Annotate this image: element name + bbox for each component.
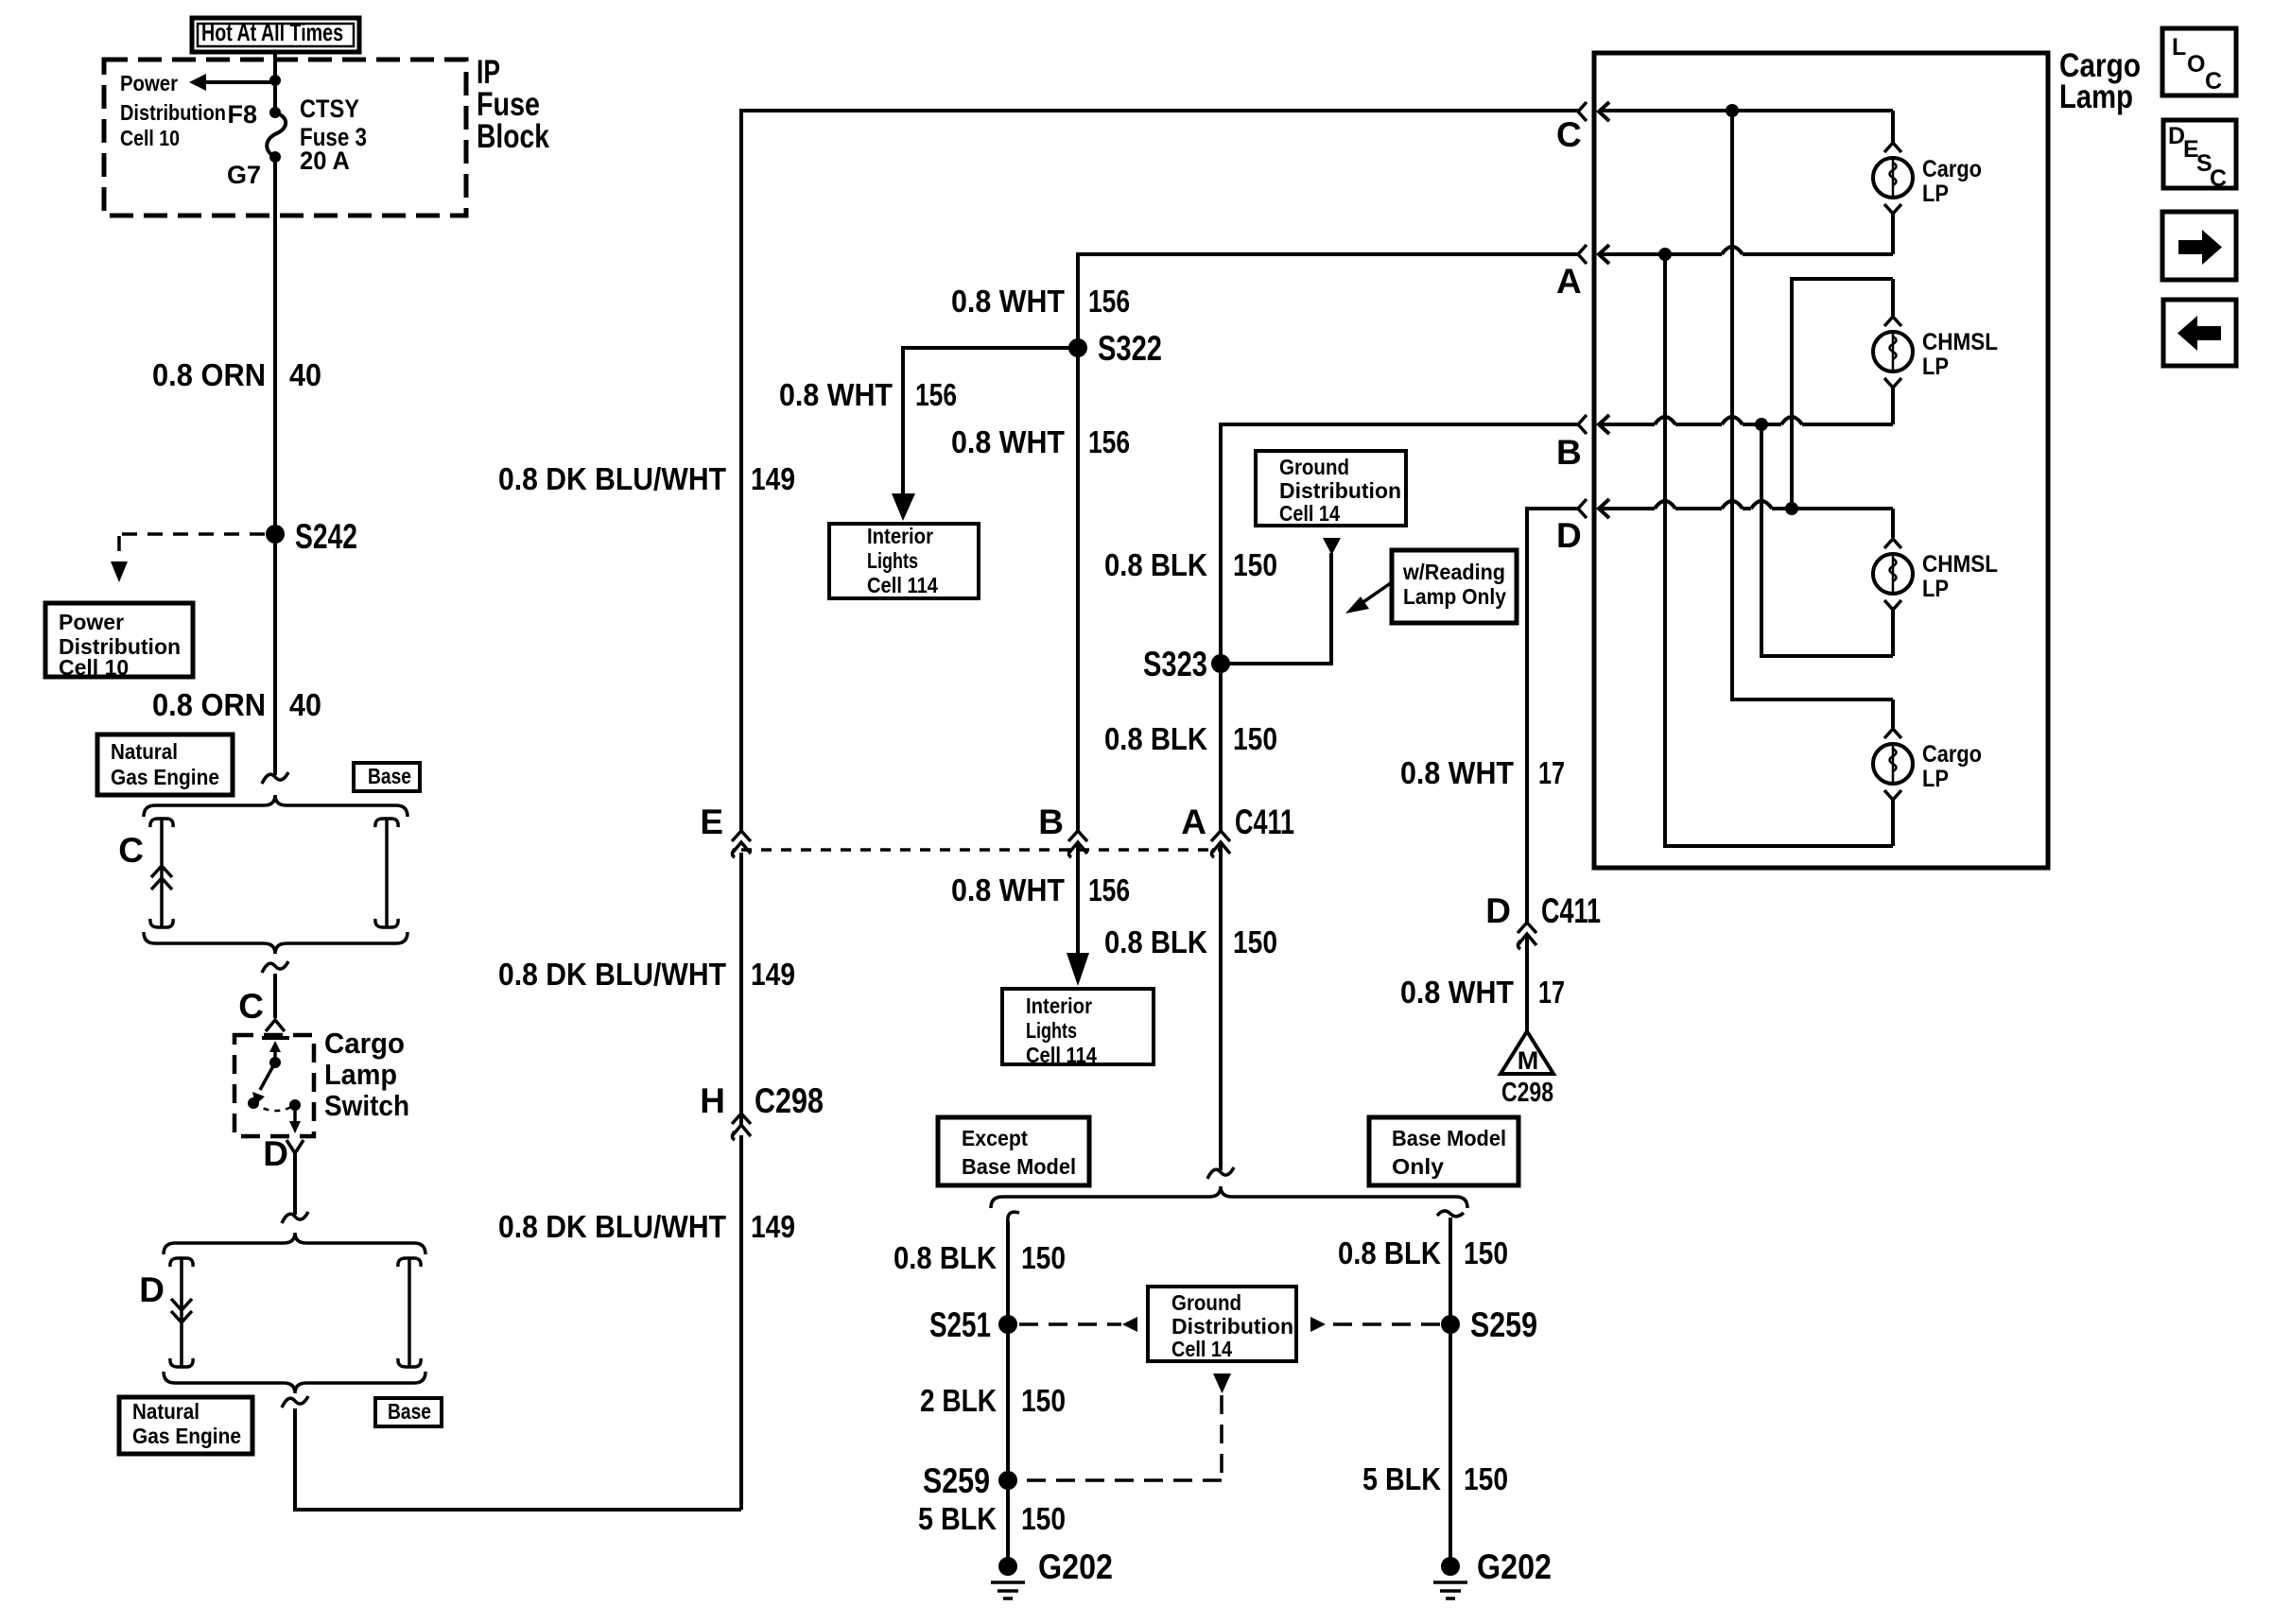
svg-text:149: 149 [751, 957, 795, 992]
svg-text:Natural: Natural [111, 739, 178, 764]
wire riser middle segment [739, 853, 743, 1125]
svg-text:150: 150 [1233, 547, 1277, 582]
svg-text:Interior: Interior [1026, 993, 1092, 1018]
IP Fuse Block label [477, 54, 549, 155]
svg-text:A: A [1556, 262, 1582, 301]
arrow from w/Reading Lamp Only [1345, 582, 1392, 613]
connector C298 M [1501, 1031, 1553, 1108]
svg-text:LP: LP [1922, 181, 1949, 207]
svg-text:LP: LP [1922, 576, 1949, 602]
svg-text:Distribution: Distribution [120, 100, 226, 125]
svg-text:H: H [700, 1081, 725, 1120]
wire interconnect D to lamp2 top [1792, 279, 1893, 509]
svg-text:C411: C411 [1235, 803, 1294, 841]
svg-text:Cargo: Cargo [324, 1027, 405, 1060]
svg-text:Base: Base [368, 764, 411, 788]
node on C feed [1726, 104, 1739, 117]
svg-text:156: 156 [915, 377, 957, 412]
wire elbow to riser [295, 1408, 741, 1510]
wire riser top segment [741, 111, 1578, 831]
svg-text:O: O [2187, 51, 2205, 78]
right arrow nav box [2162, 212, 2236, 280]
svg-text:Cargo: Cargo [1922, 156, 1982, 182]
svg-text:Gas Engine: Gas Engine [111, 765, 219, 789]
svg-text:C298: C298 [1501, 1078, 1553, 1108]
svg-text:S259: S259 [1470, 1305, 1537, 1344]
wire break [262, 961, 288, 973]
terminal A [1556, 245, 1893, 301]
svg-text:D: D [139, 1270, 165, 1309]
terminal C [1556, 102, 1893, 154]
dashed branch to Power Distribution Cell 10 [111, 534, 265, 582]
connector C411 pin E [700, 803, 751, 857]
wire label 0.8 DK BLU/WHT 149 (lower) [498, 1209, 795, 1244]
svg-text:Cell 14: Cell 14 [1279, 501, 1340, 526]
svg-text:0.8 ORN: 0.8 ORN [152, 357, 266, 392]
svg-text:150: 150 [1233, 924, 1277, 959]
lamp Cargo LP (top) [1873, 111, 1982, 254]
splice S259 (right) [1441, 1305, 1537, 1344]
left arrow nav box [2163, 300, 2236, 366]
svg-text:Cell 114: Cell 114 [867, 573, 938, 597]
brace bottom [164, 1372, 425, 1393]
connector D (switch output) [263, 1134, 304, 1173]
svg-text:L: L [2172, 34, 2186, 60]
svg-text:0.8 BLK: 0.8 BLK [1104, 924, 1207, 959]
wire label 5 BLK 150 [918, 1501, 1066, 1536]
fuse CTSY Fuse 3 20 A [267, 95, 367, 175]
Base box [354, 763, 420, 791]
svg-text:150: 150 [1021, 1501, 1066, 1536]
Power Distribution Cell 10 text (in fuse block) [120, 71, 226, 150]
svg-text:Interior: Interior [867, 524, 933, 548]
Interior Lights Cell 114 box (upper) [829, 524, 979, 598]
wire cargo lamp B-terminal to BLK riser [1221, 424, 1578, 831]
svg-text:Ground: Ground [1171, 1290, 1241, 1315]
Cargo Lamp assembly box [1594, 53, 2048, 868]
svg-text:LP: LP [1922, 766, 1949, 792]
node on A feed [1658, 248, 1672, 261]
svg-text:C298: C298 [755, 1081, 824, 1120]
wire from Hot At All Times into fuse block [273, 52, 277, 113]
svg-text:CHMSL: CHMSL [1922, 551, 1998, 578]
wire break [282, 1396, 308, 1408]
svg-text:Lamp: Lamp [2059, 78, 2133, 115]
svg-text:156: 156 [1088, 284, 1130, 319]
lamp CHMSL LP (lower) [1873, 509, 1998, 656]
wire to Interior Lights (lower) [951, 842, 1130, 986]
svg-text:Switch: Switch [324, 1089, 409, 1122]
connector C411 pin D [1485, 891, 1601, 949]
Natural Gas Engine box [97, 734, 233, 795]
svg-text:Base: Base [388, 1399, 431, 1424]
connector H C298 [700, 1081, 824, 1140]
svg-text:C: C [2205, 68, 2222, 95]
svg-text:150: 150 [1464, 1461, 1508, 1496]
svg-text:0.8 BLK: 0.8 BLK [1104, 547, 1207, 582]
svg-text:B: B [1038, 803, 1064, 841]
pin G7 [227, 151, 281, 189]
svg-text:150: 150 [1021, 1383, 1066, 1418]
connector bracket (Base) [398, 1258, 421, 1267]
svg-text:CTSY: CTSY [300, 95, 359, 123]
svg-text:S322: S322 [1098, 329, 1162, 368]
splice S322 [1068, 329, 1162, 368]
splice S323 [1143, 645, 1230, 683]
svg-text:Base Model: Base Model [1392, 1126, 1506, 1150]
LOC nav box [2162, 28, 2236, 95]
svg-text:0.8 WHT: 0.8 WHT [779, 377, 893, 412]
wire label 0.8 BLK 150 (upper) [1104, 547, 1277, 582]
svg-text:0.8 ORN: 0.8 ORN [152, 687, 266, 722]
svg-text:F8: F8 [227, 100, 257, 129]
svg-text:156: 156 [1088, 872, 1130, 907]
Natural Gas Engine box [119, 1397, 252, 1454]
svg-text:0.8 BLK: 0.8 BLK [1338, 1235, 1441, 1270]
svg-text:17: 17 [1538, 755, 1565, 790]
wire interconnect C to lamp4 top [1732, 111, 1893, 700]
wire arrow to Power Distribution Cell 10 [189, 74, 275, 91]
svg-text:Base Model: Base Model [962, 1154, 1076, 1179]
wire interconnect A to lamp4 bottom [1665, 254, 1893, 846]
Power Distribution Cell 10 box [45, 603, 193, 680]
svg-text:Cell 10: Cell 10 [120, 126, 180, 150]
svg-text:150: 150 [1464, 1235, 1508, 1270]
wire label 0.8 WHT 17 (upper) [1400, 755, 1565, 790]
svg-text:G7: G7 [227, 161, 261, 189]
wire BLK riser lower [1219, 842, 1223, 1170]
terminal D [1556, 499, 1893, 555]
svg-text:Hot At All Times: Hot At All Times [201, 18, 343, 46]
splice S251 [929, 1305, 1017, 1344]
svg-text:Block: Block [477, 118, 549, 155]
dashed link S251 to Ground Distribution [1019, 1317, 1137, 1332]
svg-text:Power: Power [120, 71, 178, 95]
svg-text:0.8 BLK: 0.8 BLK [1104, 721, 1207, 756]
svg-text:Cell 114: Cell 114 [1026, 1043, 1097, 1067]
connector bracket (Base) [375, 819, 398, 827]
wire break [282, 1212, 308, 1223]
svg-text:CHMSL: CHMSL [1922, 329, 1998, 355]
wire label 5 BLK 150 (right) [1362, 1461, 1508, 1496]
svg-text:0.8 WHT: 0.8 WHT [1400, 755, 1514, 790]
svg-text:B: B [1556, 433, 1582, 472]
svg-text:D: D [263, 1134, 288, 1173]
svg-text:Lamp Only: Lamp Only [1403, 584, 1506, 609]
svg-text:Distribution: Distribution [1279, 478, 1401, 503]
svg-text:S323: S323 [1143, 645, 1207, 683]
wire label 0.8 BLK 150 [894, 1240, 1066, 1275]
svg-text:40: 40 [289, 357, 321, 392]
svg-text:C: C [118, 831, 144, 870]
svg-text:149: 149 [751, 1209, 795, 1244]
IP Fuse Block dashed box [104, 60, 466, 216]
connector bracket D (Natural Gas Engine) [139, 1258, 193, 1367]
connector C411 pin A [1181, 803, 1294, 857]
svg-text:C: C [1556, 115, 1582, 154]
svg-text:S259: S259 [923, 1461, 990, 1500]
svg-text:C411: C411 [1541, 891, 1601, 930]
dashed link Ground Distribution to S259 right [1310, 1317, 1441, 1332]
brace bottom [144, 932, 408, 954]
lamp CHMSL LP (upper) [1873, 279, 1998, 424]
Base Model Only box [1369, 1117, 1518, 1185]
Cargo Lamp Switch label [324, 1027, 409, 1122]
dashed drop from Ground Distribution to S259 left [1019, 1373, 1231, 1480]
left leg hook [1008, 1212, 1019, 1223]
node: tap to Power Distribution [269, 75, 281, 86]
wire S322 down to C411 pin B [1076, 348, 1080, 831]
Interior Lights Cell 114 box (lower) [1002, 989, 1154, 1067]
svg-text:Power: Power [59, 610, 124, 634]
wire label 2 BLK 150 [920, 1383, 1066, 1418]
svg-text:A: A [1181, 803, 1206, 841]
svg-text:Except: Except [962, 1126, 1028, 1150]
right leg hook [1437, 1211, 1464, 1217]
svg-text:Cell 10: Cell 10 [59, 655, 129, 680]
connector C411 dashed line [741, 848, 1221, 852]
splice S242 [266, 517, 357, 556]
svg-text:E: E [700, 803, 723, 841]
node on D feed [1785, 502, 1798, 515]
DESC nav box [2163, 120, 2236, 192]
wire S323 to ground distribution [1221, 538, 1341, 664]
svg-text:Distribution: Distribution [1171, 1314, 1293, 1339]
pin F8 [227, 100, 281, 129]
wire label 0.8 BLK 150 (right) [1338, 1235, 1508, 1270]
svg-text:150: 150 [1021, 1240, 1066, 1275]
svg-text:Natural: Natural [132, 1399, 200, 1424]
terminal B [1556, 415, 1893, 472]
connector C411 pin B [1038, 803, 1087, 857]
Ground Distribution Cell 14 box (lower) [1148, 1287, 1296, 1361]
wire interconnect B to lamp3 bottom [1761, 424, 1893, 656]
ground G202 (right) [1433, 1547, 1552, 1598]
svg-text:0.8 WHT: 0.8 WHT [951, 284, 1065, 319]
wire break [1207, 1167, 1234, 1179]
brace top (connector C variants) [144, 795, 408, 817]
svg-text:D: D [1485, 891, 1511, 930]
Cargo Lamp title [2059, 47, 2141, 115]
wire left ground leg [1006, 1221, 1010, 1566]
wire to cargo lamp switch [273, 974, 277, 1018]
Cargo Lamp Switch dashed box [234, 1035, 314, 1136]
brace top (connector D variants) [164, 1233, 425, 1254]
svg-text:M: M [1518, 1046, 1539, 1075]
wire cargo lamp A-terminal feed (from S322) [1078, 254, 1578, 348]
wire cargo lamp D-terminal [1527, 509, 1578, 923]
svg-text:Only: Only [1392, 1154, 1444, 1179]
svg-text:G202: G202 [1477, 1547, 1552, 1586]
ground G202 (left) [991, 1547, 1113, 1598]
Except Base Model box [938, 1117, 1089, 1185]
svg-text:0.8 WHT: 0.8 WHT [1400, 975, 1514, 1010]
wire branch to Interior Lights (cell 114) [779, 348, 1078, 521]
svg-text:17: 17 [1538, 975, 1565, 1010]
wire break [262, 772, 288, 784]
wire label 0.8 DK BLU/WHT 149 (upper) [498, 461, 795, 496]
lamp Cargo LP (bottom) [1873, 700, 1982, 846]
svg-text:Lights: Lights [1026, 1018, 1077, 1043]
Ground Distribution Cell 14 box (upper) [1256, 451, 1406, 526]
svg-text:150: 150 [1233, 721, 1277, 756]
svg-text:0.8 DK BLU/WHT: 0.8 DK BLU/WHT [498, 1209, 726, 1244]
brace (model variants) [991, 1186, 1467, 1208]
svg-text:5 BLK: 5 BLK [918, 1501, 997, 1536]
wire 0.8 ORN 40 (fuse to S242) [152, 156, 321, 534]
svg-text:Lamp: Lamp [324, 1058, 397, 1091]
wire label 0.8 BLK 150 (mid) [1104, 721, 1277, 756]
svg-text:Cargo: Cargo [1922, 741, 1982, 768]
wire 0.8 ORN 40 (S242 down) [152, 534, 321, 775]
svg-text:149: 149 [751, 461, 795, 496]
wire riser 0.8 DK BLU/WHT (x=784) [739, 1135, 743, 1510]
splice S259 (left) [923, 1461, 1017, 1500]
wire label 0.8 WHT 17 (lower) [1400, 975, 1565, 1010]
wire to C298 [1525, 934, 1529, 1033]
svg-text:40: 40 [289, 687, 321, 722]
svg-text:LP: LP [1922, 354, 1949, 380]
connector bracket C (Natural Gas Engine) [118, 819, 173, 927]
wire label 0.8 WHT 156 (top) [951, 284, 1130, 319]
svg-text:G202: G202 [1038, 1547, 1113, 1586]
svg-text:C: C [238, 987, 264, 1026]
svg-text:0.8 DK BLU/WHT: 0.8 DK BLU/WHT [498, 461, 726, 496]
wire label 0.8 BLK 150 (lower) [1104, 924, 1277, 959]
svg-text:Ground: Ground [1279, 455, 1349, 479]
wire label 0.8 DK BLU/WHT 149 (middle) [498, 957, 795, 992]
wire right ground leg [1449, 1218, 1452, 1566]
w/Reading Lamp Only box [1392, 550, 1517, 623]
svg-text:0.8 DK BLU/WHT: 0.8 DK BLU/WHT [498, 957, 726, 992]
svg-text:S242: S242 [295, 517, 357, 556]
svg-text:0.8 BLK: 0.8 BLK [894, 1240, 997, 1275]
svg-text:2 BLK: 2 BLK [920, 1383, 997, 1418]
Hot At All Times box [192, 18, 359, 52]
svg-text:C: C [2210, 165, 2227, 192]
node on B feed [1755, 418, 1768, 431]
switch internals [248, 1038, 301, 1133]
svg-text:w/Reading: w/Reading [1402, 560, 1505, 584]
svg-text:D: D [1556, 516, 1582, 555]
svg-text:Lights: Lights [867, 548, 918, 573]
connector C (switch input) [238, 987, 285, 1031]
svg-text:Cell 14: Cell 14 [1171, 1337, 1232, 1361]
Base box [375, 1398, 442, 1426]
wire below switch [293, 1153, 297, 1215]
wire label 0.8 WHT 156 [951, 424, 1130, 459]
svg-text:20 A: 20 A [300, 147, 350, 175]
svg-text:156: 156 [1088, 424, 1130, 459]
svg-text:0.8 WHT: 0.8 WHT [951, 872, 1065, 907]
svg-text:0.8 WHT: 0.8 WHT [951, 424, 1065, 459]
svg-text:5 BLK: 5 BLK [1362, 1461, 1441, 1496]
svg-text:S251: S251 [929, 1305, 991, 1344]
svg-text:Gas Engine: Gas Engine [132, 1424, 241, 1448]
